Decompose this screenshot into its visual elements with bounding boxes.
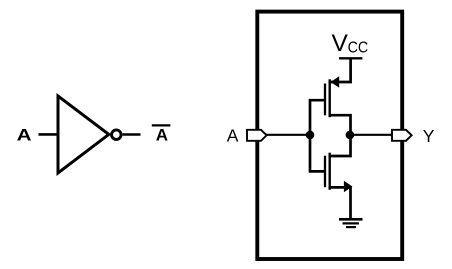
- svg-text:A: A: [17, 125, 32, 144]
- wire Vcc to PMOS source: [330, 58, 351, 82]
- PMOS Q1 gate: [324, 84, 326, 116]
- svg-text:A: A: [227, 126, 239, 146]
- svg-text:A: A: [156, 125, 168, 144]
- PMOS source arrow: [331, 76, 340, 87]
- output pin Y: [392, 130, 412, 141]
- svg-text:Y: Y: [423, 126, 435, 146]
- overbar of A: [152, 124, 171, 126]
- wire node Y to output pin: [350, 134, 393, 136]
- NMOS Q2 gate: [324, 156, 326, 188]
- wire PMOS drain to output node: [330, 115, 351, 135]
- NMOS source arrow: [344, 181, 353, 193]
- wire NMOS source to ground: [330, 187, 351, 219]
- svg-text:CC: CC: [348, 40, 369, 57]
- wire (inverter output): [123, 133, 141, 136]
- package box: [257, 12, 402, 259]
- inverter U1: [58, 96, 109, 173]
- NMOS Q2 channel: [329, 153, 331, 190]
- wire input pin to node A: [266, 134, 311, 136]
- svg-text:V: V: [332, 30, 349, 57]
- Vcc power bar: [339, 57, 362, 59]
- node A junction: [306, 131, 315, 140]
- wire NMOS drain to output node: [330, 135, 351, 156]
- input pin A: [247, 130, 267, 141]
- node Y junction: [346, 131, 355, 140]
- inversion bubble: [112, 130, 122, 140]
- wire NMOS gate lead: [310, 135, 324, 171]
- PMOS Q1 channel: [329, 79, 331, 117]
- ground: [339, 219, 363, 227]
- wire PMOS gate lead: [310, 100, 324, 135]
- wire (inverter input): [39, 133, 59, 136]
